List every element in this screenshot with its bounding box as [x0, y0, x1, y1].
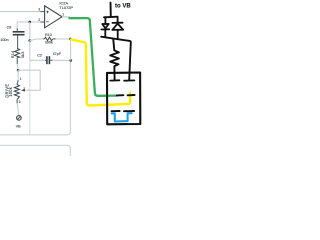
- svg-text:R14: R14: [11, 51, 15, 59]
- contact dash row2 left: [117, 94, 124, 96]
- wire R14 to pot net: [16, 64, 19, 70]
- wire wiper loop net: [18, 70, 40, 90]
- svg-text:1: 1: [62, 12, 64, 16]
- svg-text:3: 3: [38, 7, 40, 11]
- resistor annotation (black zigzag): [110, 39, 119, 80]
- blue link: [112, 113, 132, 121]
- black bottom rail and wire to box: [101, 37, 131, 80]
- black component box: [107, 73, 140, 125]
- diode left (cathode down): [101, 17, 109, 37]
- capacitor C8: [0, 25, 24, 48]
- junction node pot top: [17, 69, 20, 72]
- frame attachment box 2 (top edge, light gray rounded): [0, 145, 70, 156]
- pin stub non-inverting input: [40, 11, 44, 13]
- svg-text:to VB: to VB: [115, 3, 131, 9]
- terminal bar row1 right: [124, 79, 134, 81]
- wire op-amp inverting input net: [17, 22, 40, 28]
- contact dash row2 right: [128, 94, 135, 96]
- svg-text:TL072P: TL072P: [59, 5, 73, 10]
- svg-text:3: 3: [19, 100, 21, 104]
- junction node: [28, 39, 31, 42]
- junction node R13 output: [69, 38, 72, 41]
- junction node at inverting input: [28, 21, 31, 24]
- contact dash row3 right: [124, 110, 134, 112]
- terminal bar row1 left: [110, 79, 119, 81]
- junction node C2 output: [69, 59, 72, 62]
- svg-text:100k: 100k: [8, 86, 13, 97]
- svg-text:1: 1: [20, 77, 22, 81]
- frame attachment box 1 (right edge and bottom, light gray rounded): [0, 61, 70, 135]
- svg-text:VB: VB: [16, 124, 21, 128]
- black top rail: [104, 16, 118, 19]
- svg-text:2: 2: [23, 87, 25, 91]
- diode right (cathode up): [112, 17, 123, 39]
- frame inner vertical line: [30, 61, 32, 135]
- resistor R13 300k (horizontal zigzag): [30, 33, 71, 45]
- annotation arrow to VB: [110, 3, 112, 17]
- wire net between R13 and C2 outputs: [70, 39, 72, 60]
- capacitor C2 47pF: [30, 41, 71, 65]
- svg-text:2: 2: [38, 18, 40, 22]
- wire vertical net from inverting input down: [29, 22, 31, 41]
- yellow wire feedback node to box: [71, 39, 130, 105]
- svg-text:3k3: 3k3: [21, 51, 25, 58]
- svg-text:C2: C2: [37, 53, 42, 57]
- contact dash row3 left: [112, 110, 120, 112]
- pin stub inverting input: [40, 21, 44, 23]
- svg-text:C8: C8: [7, 25, 12, 29]
- potentiometer DRIVE 100k: [4, 70, 25, 104]
- svg-text:47pF: 47pF: [53, 52, 62, 56]
- wiper arrowhead: [21, 89, 25, 92]
- svg-text:R13: R13: [45, 33, 52, 37]
- op-amp IC2A TL072P: [45, 1, 74, 28]
- svg-text:100n: 100n: [0, 38, 8, 42]
- wire op-amp non-inverting input net: [0, 11, 40, 13]
- resistor R14 3k3 (vertical zigzag): [11, 49, 25, 65]
- svg-text:300k: 300k: [45, 41, 53, 45]
- supply symbol VB: [16, 103, 22, 128]
- green wire op-amp output to box: [69, 18, 116, 96]
